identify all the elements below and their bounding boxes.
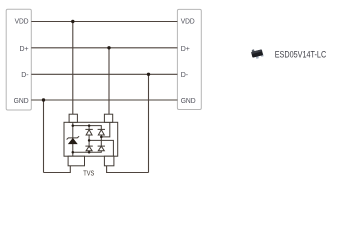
wire right diode column mid	[100, 135, 102, 146]
internal junction dot top rail left	[72, 124, 75, 127]
junction dot D+	[107, 46, 110, 49]
svg-text:D-: D-	[21, 72, 29, 79]
TVS array U1 body	[64, 122, 118, 156]
svg-text:GND: GND	[14, 98, 29, 105]
TVS GND pad (bottom-left)	[68, 156, 84, 166]
TVS pin 1 pad (top-left)	[69, 114, 77, 122]
wire internal top stub left diode	[88, 126, 90, 130]
svg-text:VDD: VDD	[15, 19, 29, 26]
diode D1 (top-left steering)	[85, 129, 92, 135]
connector J1 (left port box)	[6, 9, 31, 110]
wire internal bottom rail	[73, 151, 102, 153]
chip package icon (SOT-23)	[251, 49, 264, 59]
svg-text:ESD05V14T-LC: ESD05V14T-LC	[275, 49, 327, 59]
zener TVS diode Z1 body (filled triangle)	[69, 138, 78, 143]
diode D3 (bottom-left steering)	[85, 146, 92, 151]
junction dot GND	[42, 98, 45, 101]
internal junction dot top rail diode1	[88, 124, 91, 127]
wire D- bottom run to TVS pin	[107, 166, 149, 173]
svg-text:D+: D+	[19, 46, 28, 53]
TVS pin 2 pad (top-right)	[104, 114, 112, 122]
diode D2 (top-right steering)	[98, 129, 105, 135]
wire GND net	[31, 99, 177, 101]
junction dot D-	[147, 73, 150, 76]
wire internal top rail	[73, 126, 102, 130]
svg-text:D-: D-	[181, 72, 189, 79]
svg-text:GND: GND	[181, 98, 196, 105]
wire D+ to TVS pin 2	[108, 48, 110, 115]
diode D4 (bottom-right steering)	[98, 146, 105, 151]
connector J2 (right port box)	[177, 9, 201, 109]
wire internal bottom stub left diode	[88, 151, 90, 153]
internal junction dot mid-left node	[88, 139, 91, 142]
svg-text:VDD: VDD	[181, 19, 195, 26]
wire D- net	[31, 73, 177, 75]
internal junction dot bottom rail left	[72, 151, 75, 154]
wire D- drop	[148, 74, 150, 172]
TVS pin 4 pad (bottom-right)	[104, 156, 114, 166]
wire VDD net	[31, 21, 177, 23]
wire internal left vertical	[72, 122, 74, 156]
svg-text:D+: D+	[181, 46, 190, 53]
wire D+ net	[31, 47, 177, 49]
wire mid-right node to pin 2	[101, 122, 110, 137]
internal junction dot bottom rail diode3	[88, 151, 91, 154]
wire VDD to TVS pin 1	[72, 22, 74, 115]
wire GND bottom run to TVS pin	[44, 166, 71, 173]
junction dot VDD	[71, 20, 74, 23]
wire left diode column mid	[88, 135, 90, 146]
wire GND drop	[43, 100, 45, 173]
internal junction dot mid-right node	[100, 136, 103, 139]
svg-text:TVS: TVS	[83, 171, 94, 178]
wire mid-left node to pin 4	[89, 140, 113, 156]
zener TVS diode Z1 (cathode bar with ticks)	[67, 136, 80, 139]
